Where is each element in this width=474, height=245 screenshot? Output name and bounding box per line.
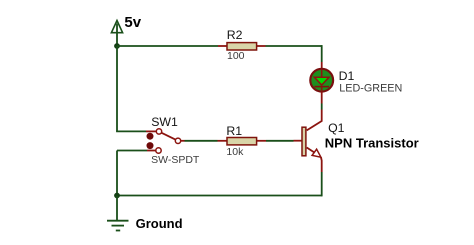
wire top rail left of R2 [117, 45, 218, 47]
resistor R2 body [227, 43, 257, 50]
wire R1 to base [266, 140, 294, 142]
wire between LED and Q1 collector [321, 104, 323, 110]
emitter pin inner [307, 148, 315, 153]
pole contact [175, 138, 180, 143]
wire pole to R1 [185, 140, 218, 142]
switch SW1 [147, 129, 181, 154]
svg-text:R1: R1 [226, 124, 242, 138]
switch pole pin [181, 140, 185, 142]
base pin [294, 140, 302, 142]
actuator dot lower [147, 142, 154, 149]
svg-text:Ground: Ground [136, 216, 183, 231]
LED D1 bottom pin [321, 92, 323, 104]
node junction bottom-left [114, 193, 120, 199]
resistor R2 pin left [218, 45, 227, 47]
resistor R1 pin right [257, 140, 266, 142]
lever [161, 133, 175, 140]
emitter arrow [312, 149, 321, 157]
wire right drop to LED [321, 45, 323, 62]
wire bottom rail [117, 195, 322, 197]
svg-text:D1: D1 [339, 69, 355, 83]
LED D1 top pin [321, 62, 323, 69]
resistor R1 pin left [218, 140, 227, 142]
base bar [302, 127, 306, 156]
wire left rail lower [116, 151, 118, 196]
emitter pin outer [320, 157, 323, 172]
power symbol 5v [111, 21, 122, 47]
svg-text:NPN Transistor: NPN Transistor [325, 135, 419, 150]
resistor R2 pin right [257, 45, 266, 47]
wire top rail right of R2 [266, 45, 322, 47]
svg-text:10k: 10k [226, 146, 244, 158]
svg-text:LED-GREEN: LED-GREEN [339, 82, 402, 94]
switch SW1 top throw pin [146, 130, 156, 132]
svg-text:SW1: SW1 [151, 115, 178, 129]
wire left rail upper [116, 46, 118, 131]
wire from switch bottom throw [117, 150, 147, 152]
svg-text:100: 100 [227, 50, 245, 62]
wire emitter to bottom rail [321, 172, 323, 196]
ground [107, 196, 129, 231]
bottom throw contact [156, 148, 161, 153]
transistor Q1 [294, 110, 322, 173]
switch SW1 bottom throw pin [147, 150, 156, 152]
svg-text:Q1: Q1 [328, 121, 345, 135]
collector pin [307, 110, 322, 131]
svg-text:SW-SPDT: SW-SPDT [151, 154, 200, 166]
LED D1 [310, 69, 333, 92]
top throw contact [156, 129, 161, 134]
actuator dot upper [147, 133, 154, 140]
wire to switch top throw [116, 130, 146, 132]
resistor R1 body [227, 138, 257, 145]
node junction top-left [114, 43, 120, 49]
svg-text:5v: 5v [124, 14, 141, 31]
svg-text:R2: R2 [227, 28, 243, 42]
